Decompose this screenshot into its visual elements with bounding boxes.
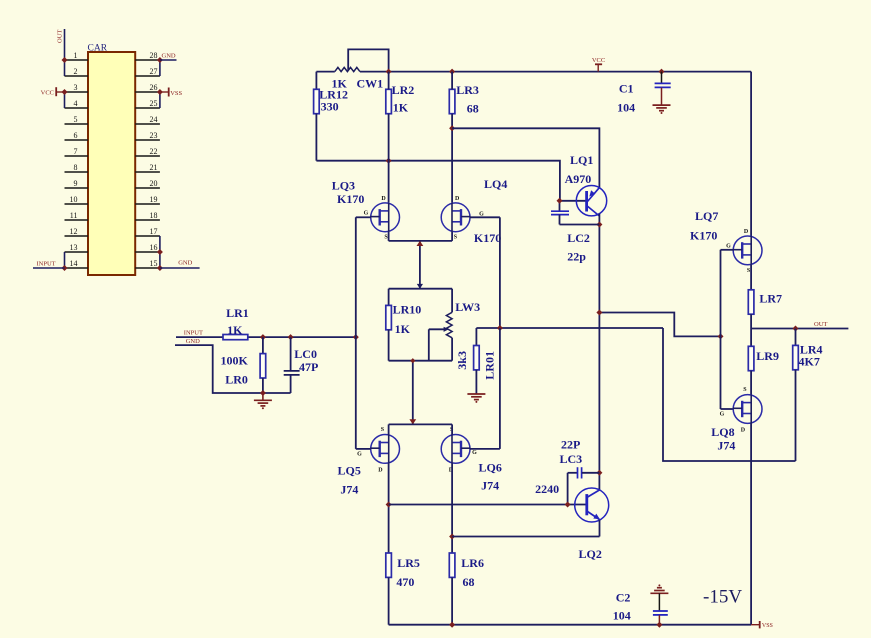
- wire LQ6 drain down to LR6: [451, 463, 453, 553]
- wire LQ5 gate: [356, 448, 371, 450]
- ground (input network): [262, 393, 264, 400]
- wire INPUT signal: [176, 336, 223, 338]
- node LC3 left / base: [565, 502, 571, 508]
- svg-text:LQ6: LQ6: [479, 461, 502, 475]
- node at pin 1 (OUT): [62, 57, 68, 63]
- IC pin 26 stub: [135, 91, 160, 93]
- svg-text:3: 3: [74, 83, 78, 92]
- wire bottom rail of LR10/LW3: [389, 360, 453, 362]
- wire joining pins 28-27: [159, 60, 161, 76]
- IC pin 5 stub: [65, 123, 89, 125]
- svg-text:10: 10: [70, 195, 78, 204]
- resistor LR2: [386, 89, 392, 113]
- IC pin 18 stub: [135, 219, 160, 221]
- svg-text:LR01: LR01: [482, 351, 496, 380]
- svg-text:1: 1: [74, 51, 78, 60]
- wire joining pins 13-14: [64, 252, 66, 268]
- svg-text:47P: 47P: [299, 360, 318, 374]
- svg-text:D: D: [378, 467, 383, 473]
- IC U1 body (CAR): [88, 52, 135, 275]
- svg-text:D: D: [741, 427, 746, 433]
- IC pin 2 stub: [65, 75, 89, 77]
- resistor LR9: [750, 329, 752, 347]
- node at pin 15: [157, 265, 163, 271]
- svg-text:21: 21: [150, 163, 158, 172]
- node LC3 right on collector: [596, 470, 602, 476]
- svg-text:G: G: [720, 412, 725, 418]
- VCC rail wire: [316, 71, 334, 73]
- wire LQ7 gate stub: [721, 249, 734, 251]
- svg-text:J74: J74: [717, 439, 735, 453]
- wire LQ5 source to LQ6 source rail: [388, 424, 390, 434]
- svg-text:OUT: OUT: [57, 30, 64, 43]
- node feedback/gate column: [497, 325, 503, 331]
- svg-text:OUT: OUT: [814, 321, 827, 328]
- svg-text:K170: K170: [690, 229, 717, 243]
- svg-text:LR3: LR3: [456, 83, 479, 97]
- svg-text:LQ4: LQ4: [484, 177, 507, 191]
- svg-text:LR6: LR6: [461, 556, 484, 570]
- svg-text:27: 27: [150, 67, 158, 76]
- power port VCC at pin 3: [55, 87, 57, 96]
- resistor LR1 (1K) horizontal: [223, 335, 248, 340]
- svg-text:2: 2: [74, 67, 78, 76]
- svg-text:11: 11: [70, 211, 78, 220]
- JFET LQ7 (K170): [733, 236, 762, 265]
- JFET LQ8 (J74): [733, 395, 762, 424]
- wire LQ5 drain to LQ2 base: [389, 504, 587, 506]
- svg-text:LQ1: LQ1: [570, 153, 593, 167]
- svg-text:LQ8: LQ8: [711, 425, 734, 439]
- svg-text:100K: 100K: [221, 353, 249, 367]
- svg-text:LR0: LR0: [225, 372, 248, 386]
- JFET LQ4 (K170): [441, 203, 470, 232]
- svg-text:CW1: CW1: [357, 76, 384, 90]
- wire LQ6 gate to feedback column: [470, 448, 500, 450]
- wire LQ8 drain to -15V rail: [750, 423, 752, 624]
- svg-text:CAR: CAR: [88, 44, 108, 54]
- node at pin 16: [157, 249, 163, 255]
- svg-text:LR1: LR1: [226, 306, 249, 320]
- wire top rail of LR10/LW3: [389, 288, 453, 290]
- IC pin 19 stub: [135, 203, 160, 205]
- svg-text:VCC: VCC: [41, 90, 54, 97]
- wire GND at pin 28: [160, 59, 177, 61]
- IC pin 14 stub: [65, 267, 89, 269]
- wire LR12 bottom to LQ1 base (lower loop): [316, 161, 585, 201]
- IC pin 22 stub: [135, 155, 160, 157]
- svg-text:1K: 1K: [227, 323, 243, 337]
- node at pin 28: [157, 57, 163, 63]
- IC pin 1 stub: [65, 59, 89, 61]
- wire feedback LR4 bottom loop: [663, 328, 796, 461]
- resistor LR3: [449, 89, 455, 113]
- node LR6/rail: [449, 622, 455, 628]
- power port VSS (rail): [751, 624, 760, 626]
- svg-text:VCC: VCC: [592, 57, 605, 64]
- svg-text:INPUT: INPUT: [37, 261, 56, 268]
- IC pin 4 stub: [65, 107, 89, 109]
- svg-text:23: 23: [150, 131, 158, 140]
- node C1 on rail: [659, 69, 665, 75]
- IC pin 12 stub: [65, 235, 89, 237]
- node input/gate column: [353, 334, 359, 340]
- IC pin 25 stub: [135, 107, 160, 109]
- wire feedback node (line B): [476, 327, 663, 329]
- svg-text:J74: J74: [481, 479, 499, 493]
- wire joining pins 26-25: [159, 92, 161, 108]
- resistor LR5 (470): [386, 553, 392, 577]
- wire GND at pin 15: [160, 267, 200, 269]
- IC pin 23 stub: [135, 139, 160, 141]
- tail wire down to LR10/LW3 top: [419, 241, 421, 289]
- junction arrow at tail top: [417, 241, 424, 246]
- svg-text:D: D: [455, 196, 460, 202]
- svg-text:LQ2: LQ2: [579, 547, 602, 561]
- svg-text:INPUT: INPUT: [184, 329, 203, 336]
- svg-text:470: 470: [396, 575, 414, 589]
- IC pin 11 stub: [65, 219, 89, 221]
- svg-text:104: 104: [617, 101, 635, 115]
- wire joining pins 3-4: [64, 92, 66, 108]
- wire joining pins 17-16-15: [159, 236, 161, 268]
- node LR1/LR0: [260, 334, 266, 340]
- capacitor LC2 (22p): [559, 201, 561, 211]
- svg-text:LQ7: LQ7: [695, 209, 718, 223]
- IC pin 21 stub: [135, 171, 160, 173]
- IC pin 9 stub: [65, 187, 89, 189]
- wire LQ3 source to LQ4 source rail with tail tap: [388, 232, 390, 241]
- svg-text:12: 12: [70, 227, 78, 236]
- IC pin 8 stub: [65, 171, 89, 173]
- svg-text:1K: 1K: [395, 322, 411, 336]
- svg-text:LW3: LW3: [455, 300, 480, 314]
- svg-text:LR2: LR2: [392, 83, 415, 97]
- node OUT/LR4: [793, 326, 799, 332]
- svg-text:LR7: LR7: [759, 291, 782, 305]
- resistor LR7: [748, 290, 754, 314]
- svg-text:26: 26: [150, 83, 158, 92]
- svg-text:C2: C2: [616, 591, 631, 605]
- svg-text:G: G: [472, 450, 477, 456]
- wire LQ6 drain to LQ2 emitter: [452, 536, 599, 538]
- resistor LR10 (1K): [388, 289, 390, 306]
- svg-text:A970: A970: [565, 172, 592, 186]
- IC pin 28 stub: [135, 59, 160, 61]
- ground (C1): [653, 104, 671, 106]
- svg-text:G: G: [357, 451, 362, 457]
- svg-text:K170: K170: [337, 192, 364, 206]
- svg-text:LQ3: LQ3: [332, 178, 355, 192]
- resistor LR01 (3k3): [475, 328, 477, 346]
- svg-text:330: 330: [321, 100, 339, 114]
- resistor LR12: [315, 72, 317, 90]
- svg-text:D: D: [744, 229, 749, 235]
- power port VSS at pin 26: [160, 91, 169, 93]
- svg-text:LC2: LC2: [567, 231, 590, 245]
- node tail/bottom rail of LR10-LW3: [410, 358, 415, 363]
- IC pin 7 stub: [65, 155, 89, 157]
- wire LQ8 gate stub: [721, 408, 733, 410]
- svg-text:68: 68: [463, 575, 475, 589]
- svg-text:LR9: LR9: [756, 349, 779, 363]
- power port VCC (rail): [595, 63, 602, 65]
- node LQ5 drain / LQ2 base wire: [386, 502, 392, 508]
- wire -15V rail: [389, 624, 751, 626]
- wire gate column LQ7-LQ8: [720, 250, 722, 409]
- wire OUT rail: [751, 328, 848, 330]
- IC pin 13 stub: [65, 251, 89, 253]
- resistor LR6 (68): [449, 553, 455, 577]
- svg-text:G: G: [726, 244, 731, 250]
- IC pin 16 stub: [135, 251, 160, 253]
- svg-text:GND: GND: [178, 260, 192, 267]
- svg-text:22p: 22p: [567, 250, 586, 264]
- resistor LR0 (100K): [262, 337, 264, 354]
- svg-text:5: 5: [74, 115, 78, 124]
- capacitor C2 (104): [658, 584, 660, 586]
- svg-text:LR5: LR5: [397, 556, 420, 570]
- svg-text:19: 19: [150, 195, 158, 204]
- node at pin 14: [62, 265, 68, 271]
- svg-text:22P: 22P: [561, 438, 580, 452]
- svg-text:VSS: VSS: [170, 90, 182, 97]
- JFET LQ6 (J74): [441, 435, 470, 464]
- svg-text:28: 28: [150, 51, 158, 60]
- node rail/LR2: [386, 69, 392, 75]
- svg-text:3k3: 3k3: [455, 351, 469, 370]
- wire gate column LQ3-LQ5: [355, 217, 357, 449]
- wire INPUT to pin 14: [33, 267, 65, 269]
- tail wire down to LQ5/LQ6 sources: [412, 361, 414, 425]
- svg-text:18: 18: [150, 211, 158, 220]
- svg-text:9: 9: [74, 179, 78, 188]
- svg-text:GND: GND: [186, 338, 200, 345]
- IC pin 6 stub: [65, 139, 89, 141]
- svg-text:LR10: LR10: [393, 303, 422, 317]
- trimmer LW3 zigzag: [451, 289, 453, 313]
- svg-text:14: 14: [70, 259, 78, 268]
- svg-text:K170: K170: [474, 231, 501, 245]
- capacitor C1 (104): [661, 72, 663, 83]
- ground (LR01): [467, 393, 485, 395]
- wire LQ3 gate to input column: [356, 216, 371, 218]
- node LC0 top: [288, 334, 294, 340]
- svg-text:J74: J74: [340, 482, 358, 496]
- IC pin 27 stub: [135, 75, 160, 77]
- transistor LQ1 (A970 PNP): [576, 186, 606, 216]
- svg-text:GND: GND: [162, 53, 176, 60]
- resistor LR4 (4K7): [795, 329, 797, 346]
- wire LQ1 collector to gate column (line A): [599, 313, 720, 337]
- IC pin 17 stub: [135, 235, 160, 237]
- svg-text:15: 15: [150, 259, 158, 268]
- svg-text:LC3: LC3: [560, 452, 583, 466]
- svg-text:68: 68: [467, 102, 479, 116]
- IC pin 3 stub: [65, 91, 89, 93]
- svg-text:6: 6: [74, 131, 78, 140]
- IC pin 24 stub: [135, 123, 160, 125]
- svg-text:7: 7: [74, 147, 78, 156]
- CW1 wiper and top loop wire: [348, 49, 388, 71]
- wire LQ5 drain down to LR5: [388, 463, 390, 553]
- IC pin 15 stub: [135, 267, 160, 269]
- svg-text:-15V: -15V: [703, 587, 742, 608]
- svg-text:24: 24: [150, 115, 158, 124]
- wire LQ4 gate to feedback column: [470, 216, 500, 218]
- wire GND return: [175, 345, 263, 393]
- svg-text:8: 8: [74, 163, 78, 172]
- svg-text:1K: 1K: [393, 101, 409, 115]
- svg-text:22: 22: [150, 147, 158, 156]
- svg-text:C1: C1: [619, 82, 634, 96]
- svg-text:2240: 2240: [535, 482, 559, 496]
- svg-text:4K7: 4K7: [799, 355, 820, 369]
- node rail/LR3: [449, 69, 455, 75]
- svg-text:D: D: [381, 196, 386, 202]
- svg-text:VSS: VSS: [762, 623, 773, 629]
- node LC2 top / base: [557, 198, 563, 204]
- svg-text:20: 20: [150, 179, 158, 188]
- svg-text:LQ5: LQ5: [338, 464, 361, 478]
- wire joining pins 1-2 and OUT net stem: [64, 29, 66, 76]
- wire LQ7 source to LR7: [750, 265, 752, 290]
- svg-text:25: 25: [150, 99, 158, 108]
- JFET LQ5 (J74): [371, 435, 400, 464]
- wire LQ1 collector down: [598, 214, 600, 491]
- LW3 wiper arm: [429, 328, 446, 330]
- node gate column LQ7/LQ8: [718, 333, 724, 339]
- node LR3 bottom / LQ1 emitter branch: [449, 125, 455, 131]
- IC pin 20 stub: [135, 187, 160, 189]
- svg-text:LC0: LC0: [294, 347, 317, 361]
- node LC2 bottom on collector: [596, 222, 602, 228]
- node LQ6 drain / LQ2 emitter wire: [449, 534, 455, 540]
- node on collector line A: [596, 310, 602, 316]
- svg-text:104: 104: [613, 609, 631, 623]
- node C2/rail: [656, 622, 662, 628]
- transistor LQ2 (2240 NPN): [575, 488, 609, 522]
- capacitor LC0 (47P): [290, 337, 292, 370]
- node ground input: [260, 390, 266, 396]
- svg-text:17: 17: [150, 227, 158, 236]
- wire LQ2 emitter down-left to LR6 line: [599, 520, 601, 537]
- wire rail corner to LQ7 drain: [750, 72, 752, 237]
- svg-text:16: 16: [150, 243, 158, 252]
- node loop/LR2-LQ3 drain: [386, 158, 392, 164]
- wire LR3 bottom to LQ1 emitter: [452, 128, 599, 187]
- capacitor LC3 (22P): [567, 473, 569, 505]
- svg-text:13: 13: [70, 243, 78, 252]
- potentiometer CW1 zigzag: [335, 67, 360, 71]
- svg-text:4: 4: [74, 99, 78, 108]
- JFET LQ3 (K170): [371, 203, 400, 232]
- svg-text:G: G: [364, 211, 369, 217]
- IC pin 10 stub: [65, 203, 89, 205]
